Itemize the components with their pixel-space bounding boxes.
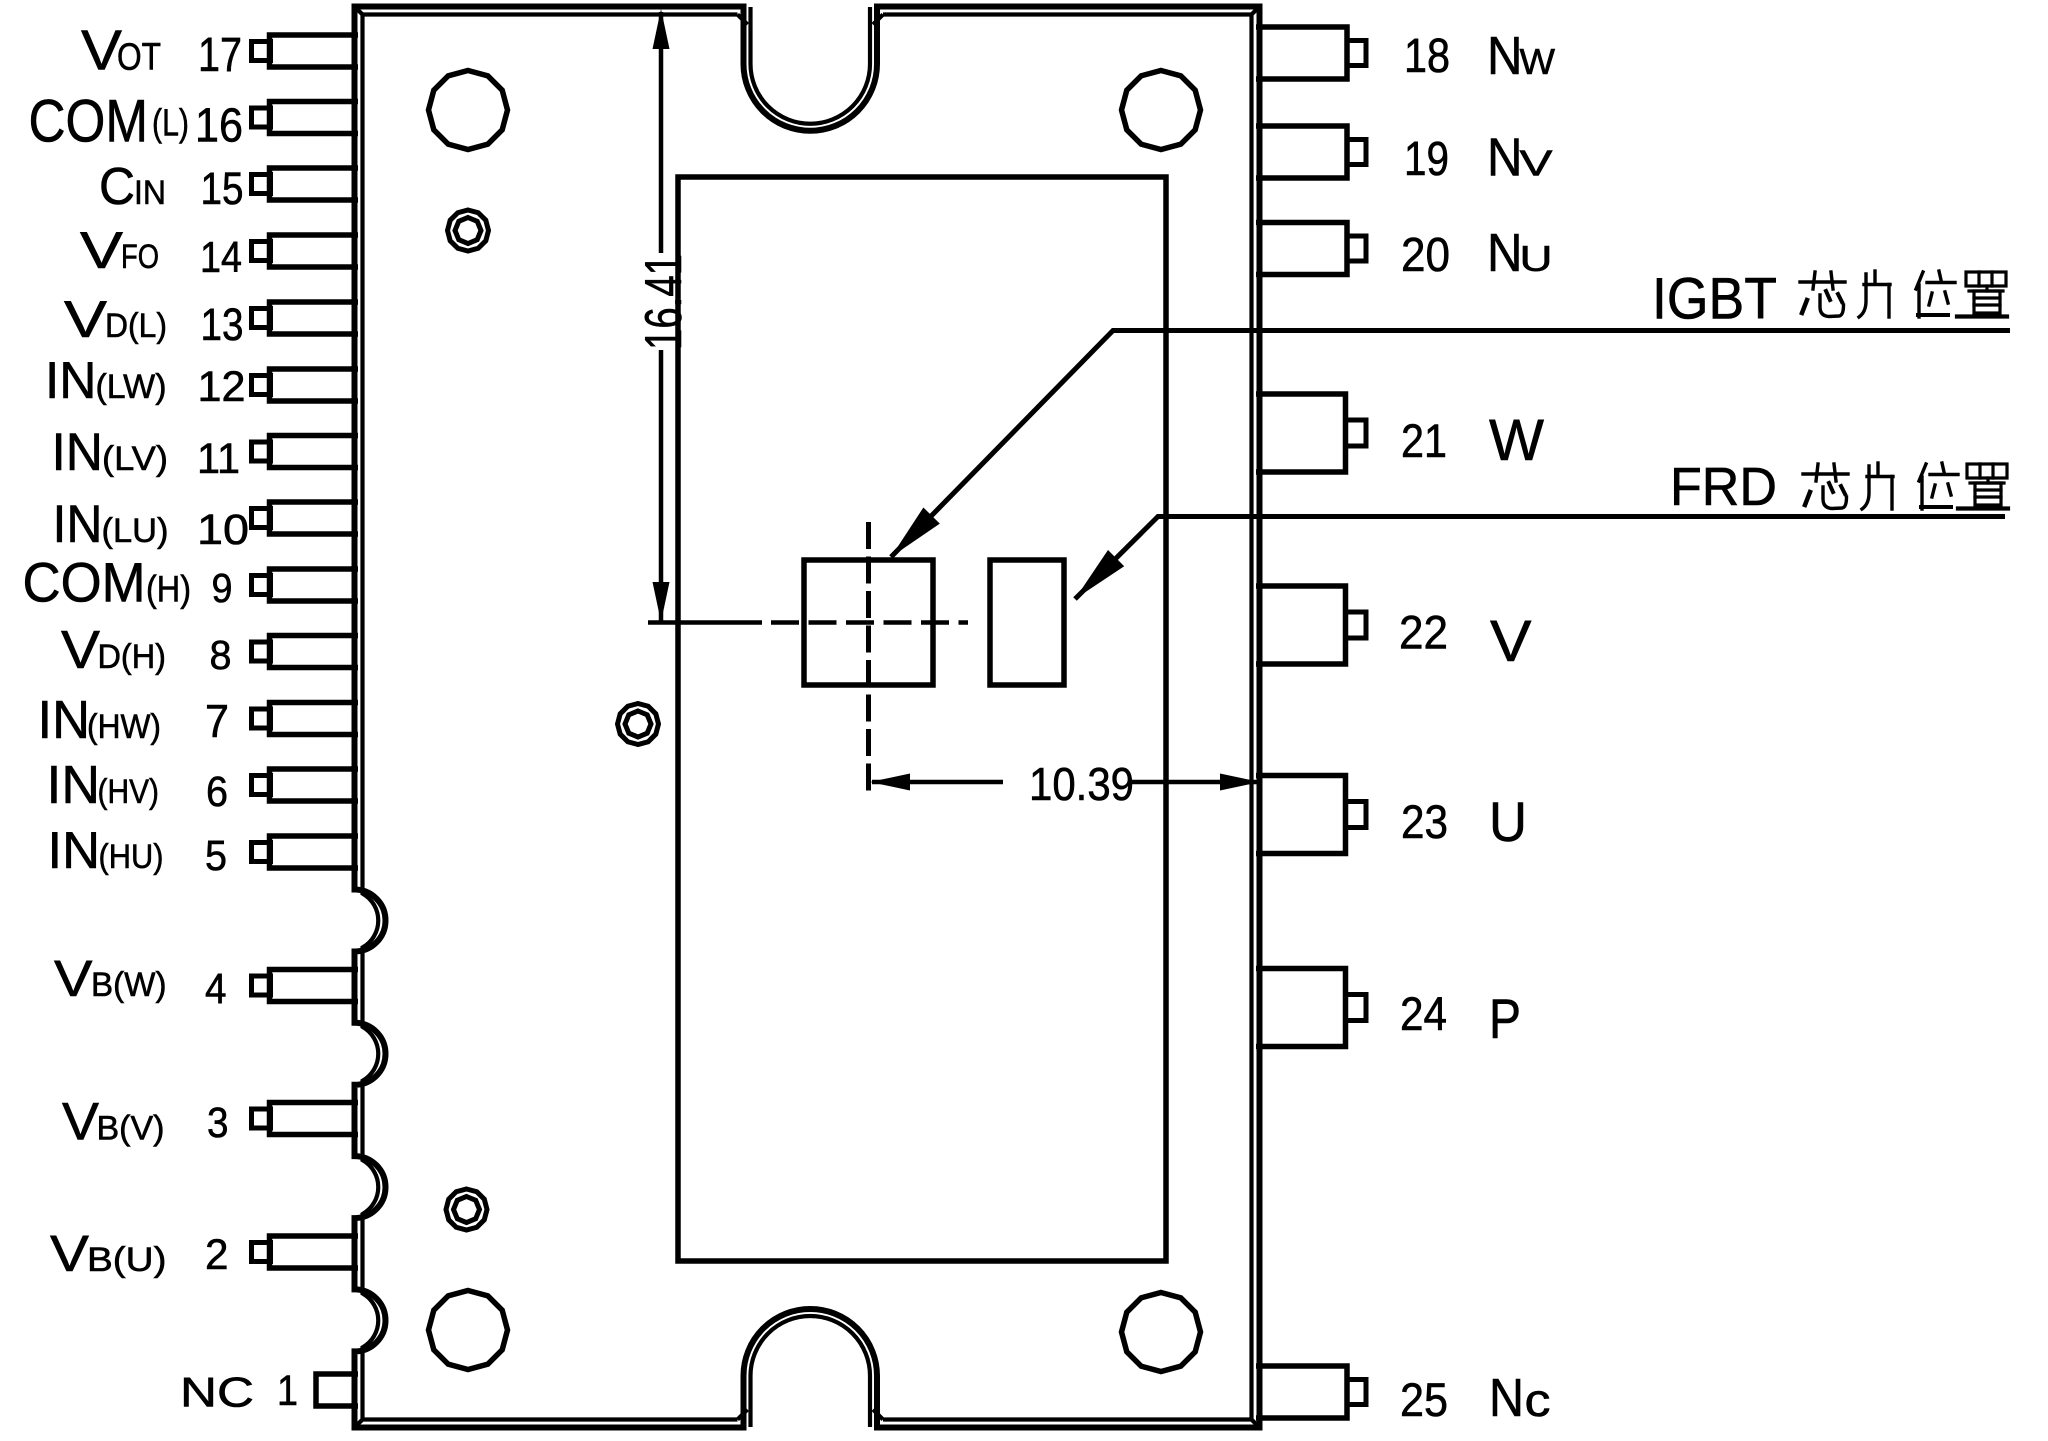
svg-text:7: 7 <box>205 695 229 747</box>
svg-text:N: N <box>1487 128 1523 188</box>
svg-text:N: N <box>1489 1368 1524 1428</box>
svg-text:B(V): B(V) <box>97 1110 165 1148</box>
svg-text:IN: IN <box>134 174 166 212</box>
svg-text:V: V <box>64 291 107 349</box>
svg-text:NC: NC <box>180 1369 254 1416</box>
svg-text:23: 23 <box>1401 795 1448 848</box>
svg-text:D(L): D(L) <box>105 307 167 345</box>
svg-text:N: N <box>1487 26 1523 86</box>
svg-text:OT: OT <box>117 37 161 79</box>
svg-text:5: 5 <box>205 832 227 880</box>
svg-text:W: W <box>1520 41 1556 82</box>
svg-text:(LW): (LW) <box>96 368 167 406</box>
svg-text:18: 18 <box>1404 30 1450 83</box>
svg-text:B(W): B(W) <box>91 966 167 1004</box>
svg-text:V: V <box>54 950 93 1007</box>
svg-text:P: P <box>1489 987 1521 1050</box>
svg-text:15: 15 <box>201 163 244 214</box>
svg-text:V: V <box>1490 609 1532 674</box>
svg-text:COM: COM <box>23 551 146 614</box>
svg-text:N: N <box>1487 223 1523 283</box>
svg-text:1: 1 <box>277 1367 298 1415</box>
svg-text:V: V <box>81 19 122 83</box>
svg-text:IN: IN <box>47 755 101 815</box>
svg-text:D(H): D(H) <box>98 638 167 676</box>
svg-text:2: 2 <box>205 1231 229 1279</box>
svg-text:10.39: 10.39 <box>1029 758 1134 810</box>
svg-text:3: 3 <box>207 1099 229 1147</box>
svg-text:V: V <box>50 1225 89 1282</box>
svg-text:(L): (L) <box>152 103 189 145</box>
svg-text:(HV): (HV) <box>98 773 160 811</box>
svg-text:13: 13 <box>201 299 244 350</box>
svg-text:4: 4 <box>205 965 227 1013</box>
svg-text:22: 22 <box>1399 606 1448 659</box>
svg-text:IN: IN <box>52 423 104 482</box>
svg-text:19: 19 <box>1404 133 1449 186</box>
svg-text:25: 25 <box>1400 1373 1448 1426</box>
svg-text:(HW): (HW) <box>87 708 161 746</box>
svg-text:24: 24 <box>1400 987 1447 1040</box>
svg-text:FO: FO <box>121 238 159 276</box>
svg-text:(LV): (LV) <box>102 440 168 478</box>
svg-text:V: V <box>62 1093 100 1152</box>
svg-text:IN: IN <box>48 822 101 880</box>
svg-text:COM: COM <box>29 88 149 155</box>
svg-text:IGBT: IGBT <box>1652 267 1777 332</box>
svg-text:16: 16 <box>195 100 243 153</box>
svg-text:V: V <box>1520 143 1553 184</box>
svg-text:C: C <box>99 158 135 216</box>
svg-text:10: 10 <box>197 506 249 554</box>
svg-text:21: 21 <box>1401 414 1447 467</box>
svg-text:(H): (H) <box>146 569 191 610</box>
svg-text:6: 6 <box>206 768 228 816</box>
svg-text:U: U <box>1489 790 1527 853</box>
svg-text:V: V <box>61 620 100 680</box>
svg-text:c: c <box>1525 1374 1551 1426</box>
svg-text:(HU): (HU) <box>99 838 164 876</box>
svg-text:20: 20 <box>1401 229 1450 282</box>
svg-text:B(U): B(U) <box>87 1241 167 1279</box>
svg-text:IN: IN <box>38 690 91 750</box>
svg-text:12: 12 <box>198 363 246 411</box>
svg-text:IN: IN <box>45 352 97 410</box>
svg-text:U: U <box>1520 238 1553 279</box>
svg-text:9: 9 <box>212 565 233 611</box>
svg-text:17: 17 <box>198 29 242 82</box>
svg-text:IN: IN <box>53 495 103 554</box>
svg-text:V: V <box>80 222 123 280</box>
svg-text:(LU): (LU) <box>102 512 169 550</box>
svg-text:FRD: FRD <box>1670 457 1777 517</box>
svg-text:16.41: 16.41 <box>635 254 693 350</box>
svg-text:W: W <box>1489 408 1544 473</box>
svg-text:14: 14 <box>200 233 242 282</box>
svg-text:11: 11 <box>197 435 240 483</box>
svg-text:8: 8 <box>210 632 232 678</box>
